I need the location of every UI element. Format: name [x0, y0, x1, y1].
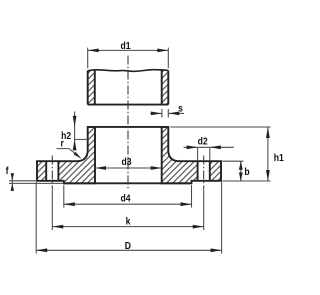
- svg-text:b: b: [244, 166, 249, 178]
- svg-text:d1: d1: [120, 40, 131, 52]
- svg-text:d4: d4: [120, 193, 131, 205]
- svg-text:D: D: [125, 240, 131, 252]
- svg-text:s: s: [178, 103, 183, 115]
- svg-text:r: r: [61, 138, 65, 150]
- svg-text:h1: h1: [274, 152, 285, 164]
- svg-text:d3: d3: [121, 156, 131, 168]
- svg-text:d2: d2: [198, 136, 208, 148]
- svg-text:k: k: [126, 216, 131, 228]
